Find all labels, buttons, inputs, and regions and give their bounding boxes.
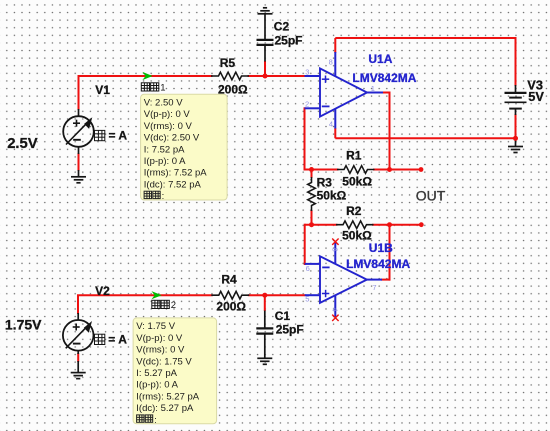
svg-text::: : <box>154 415 157 426</box>
svg-text:50kΩ: 50kΩ <box>342 229 372 243</box>
svg-text:5V: 5V <box>528 89 544 104</box>
svg-text:OUT: OUT <box>416 188 446 204</box>
svg-text:R4: R4 <box>221 273 237 287</box>
svg-text:I(rms): 5.27 pA: I(rms): 5.27 pA <box>136 391 199 402</box>
svg-text:R2: R2 <box>346 204 362 218</box>
svg-text:5: 5 <box>305 295 309 304</box>
svg-text:3: 3 <box>305 67 309 76</box>
svg-text:V(dc): 2.50 V: V(dc): 2.50 V <box>144 133 200 144</box>
svg-text:7: 7 <box>372 283 376 292</box>
svg-text:4: 4 <box>329 120 333 129</box>
svg-text:4: 4 <box>331 308 340 312</box>
svg-text:U1A: U1A <box>368 52 392 66</box>
svg-text:2: 2 <box>171 300 176 311</box>
svg-text:I(p-p): 0 A: I(p-p): 0 A <box>136 380 178 391</box>
svg-text:6: 6 <box>306 264 310 273</box>
svg-text:I(rms): 7.52 pA: I(rms): 7.52 pA <box>144 168 207 179</box>
svg-text:R5: R5 <box>220 56 236 70</box>
svg-text:V(rms): 0 V: V(rms): 0 V <box>144 121 193 132</box>
svg-text:2: 2 <box>305 100 309 109</box>
svg-text:= A: = A <box>109 129 128 143</box>
svg-text:8: 8 <box>329 58 333 67</box>
svg-text:200Ω: 200Ω <box>216 299 246 313</box>
svg-text:25pF: 25pF <box>275 33 303 47</box>
svg-text:V: 1.75 V: V: 1.75 V <box>136 321 175 332</box>
svg-text:V: 2.50 V: V: 2.50 V <box>144 98 183 109</box>
svg-text:R3: R3 <box>317 176 333 190</box>
svg-text:1: 1 <box>371 84 375 93</box>
svg-text:R1: R1 <box>346 148 362 162</box>
svg-text:C2: C2 <box>274 20 290 34</box>
svg-text:I(dc): 5.27 pA: I(dc): 5.27 pA <box>136 403 194 414</box>
svg-text:U1B: U1B <box>369 241 393 255</box>
svg-text::: : <box>162 191 165 202</box>
svg-text:200Ω: 200Ω <box>218 82 248 96</box>
svg-text:I(dc): 7.52 pA: I(dc): 7.52 pA <box>144 179 202 190</box>
svg-text:8: 8 <box>331 248 340 252</box>
svg-text:25pF: 25pF <box>276 323 304 337</box>
svg-text:1.75V: 1.75V <box>5 316 42 332</box>
svg-text:I(p-p): 0 A: I(p-p): 0 A <box>144 156 186 167</box>
svg-text:LMV842MA: LMV842MA <box>352 71 416 85</box>
svg-text:V2: V2 <box>95 284 110 298</box>
svg-text:V(dc): 1.75 V: V(dc): 1.75 V <box>136 356 192 367</box>
svg-text:I: 5.27 pA: I: 5.27 pA <box>136 368 177 379</box>
svg-text:V1: V1 <box>95 83 110 97</box>
svg-text:V(p-p): 0 V: V(p-p): 0 V <box>136 333 183 344</box>
svg-text:50kΩ: 50kΩ <box>317 189 347 203</box>
svg-text:LMV842MA: LMV842MA <box>346 257 410 271</box>
svg-text:C1: C1 <box>275 309 291 323</box>
svg-text:1: 1 <box>160 83 165 94</box>
svg-text:I: 7.52 pA: I: 7.52 pA <box>144 144 185 155</box>
svg-text:2.5V: 2.5V <box>7 136 38 152</box>
svg-text:V(p-p): 0 V: V(p-p): 0 V <box>144 109 191 120</box>
svg-text:V(rms): 0 V: V(rms): 0 V <box>136 345 185 356</box>
svg-text:50kΩ: 50kΩ <box>342 174 372 188</box>
svg-text:= A: = A <box>108 333 127 347</box>
